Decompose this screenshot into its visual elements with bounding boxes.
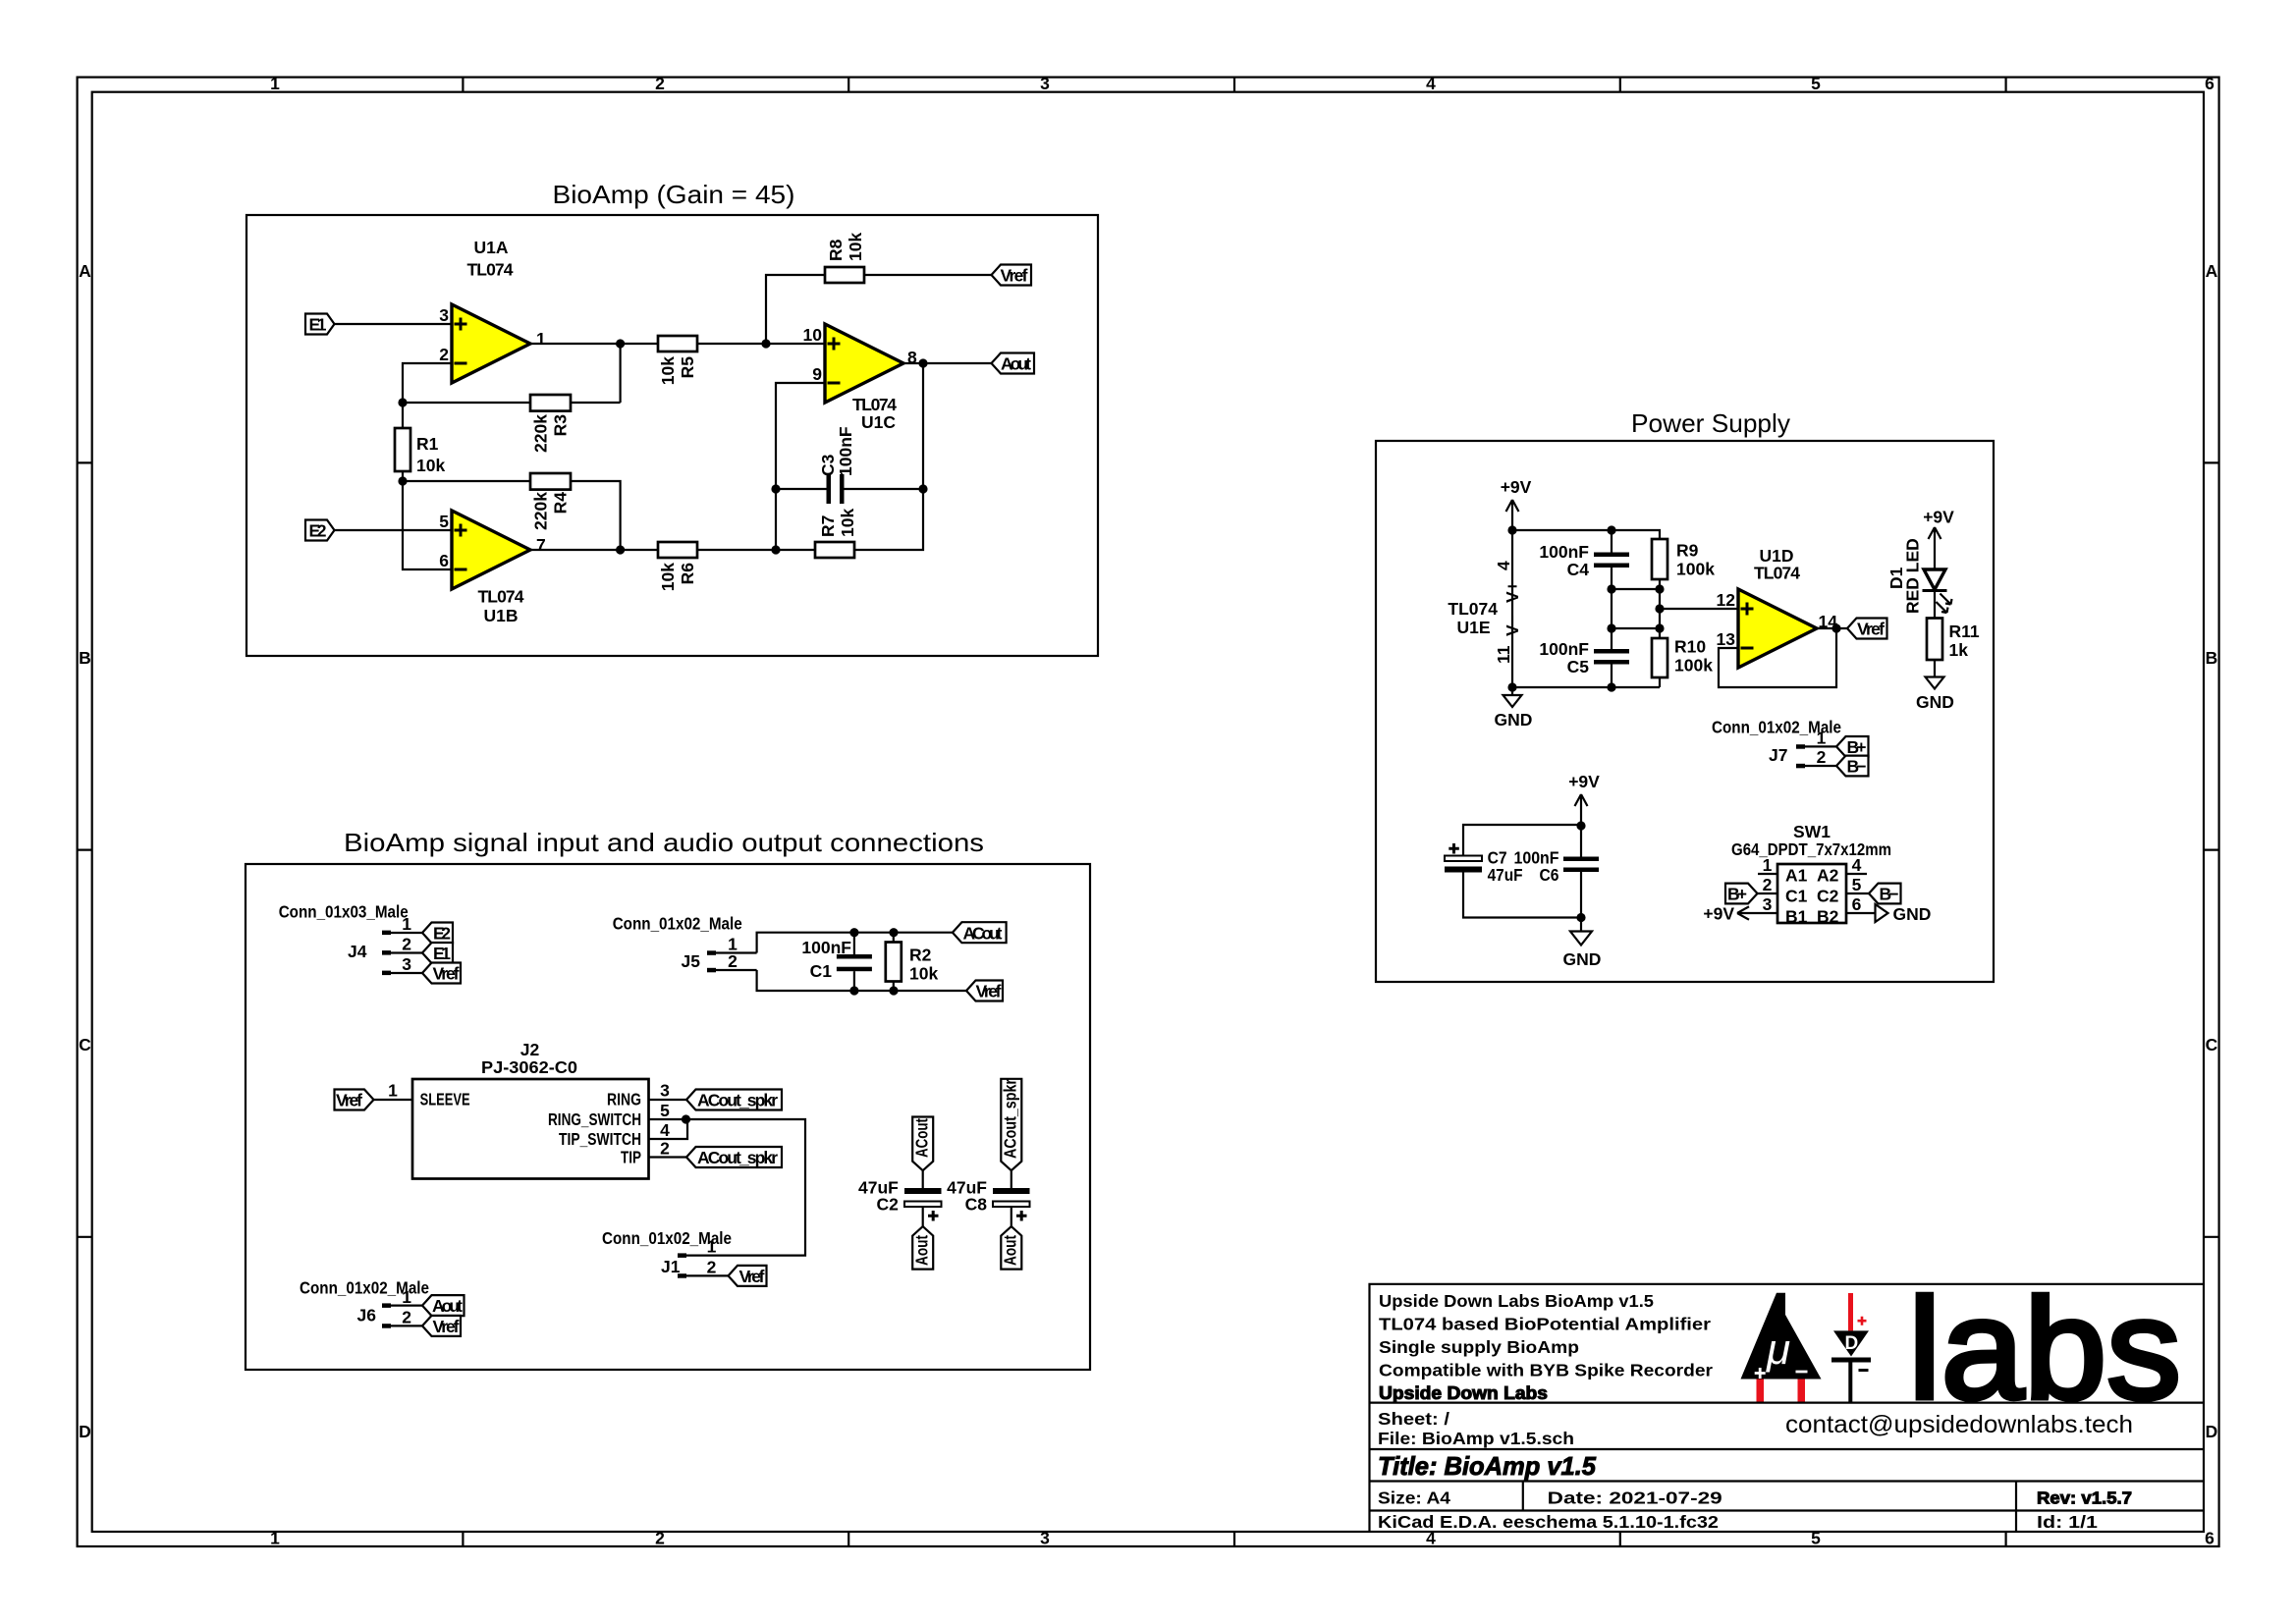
svg-text:1: 1 (402, 914, 411, 934)
svg-text:U1C: U1C (861, 412, 896, 432)
svg-text:100nF: 100nF (1539, 639, 1589, 659)
svg-text:Vref: Vref (739, 1267, 765, 1286)
svg-text:R3: R3 (551, 414, 571, 437)
svg-text:Date: 2021-07-29: Date: 2021-07-29 (1548, 1488, 1722, 1508)
svg-text:2: 2 (728, 951, 738, 971)
resistor R9 (1652, 539, 1667, 589)
SW1 pin 1 (1758, 855, 1777, 875)
resistor R7 (815, 542, 854, 558)
svg-text:47uF: 47uF (1488, 865, 1523, 885)
svg-text:10: 10 (803, 325, 823, 345)
svg-text:ACout: ACout (963, 924, 1003, 944)
svg-text:5: 5 (1811, 74, 1821, 93)
svg-text:C2: C2 (1817, 886, 1839, 905)
global label Vref (J2 sleeve) (335, 1090, 374, 1110)
svg-text:R10: R10 (1674, 637, 1706, 657)
svg-text:Aout: Aout (912, 1235, 932, 1266)
resistor R5 (658, 336, 697, 352)
J2 pin 4 wire (649, 1119, 688, 1139)
svg-text:Sheet: /: Sheet: / (1378, 1409, 1449, 1429)
wire R7 to pin8 riser (854, 363, 923, 550)
junction C3 right (918, 484, 927, 493)
wire R1 bottom stub (402, 471, 404, 481)
svg-text:GND: GND (1495, 710, 1533, 730)
resistor R11 (1927, 589, 1942, 677)
op-amp U1E power pins body (1511, 530, 1513, 687)
svg-text:3: 3 (402, 954, 411, 974)
svg-text:4: 4 (1426, 74, 1436, 93)
wire node B down to pin6 (403, 481, 452, 569)
wire R6 to R7 (697, 549, 815, 551)
svg-text:R1: R1 (416, 434, 439, 454)
logo diode symbol (1831, 1293, 1871, 1402)
junction U1E top (1507, 525, 1516, 534)
connector J6 pin 2 (382, 1308, 422, 1328)
wire J5 to bottom rail (757, 970, 967, 991)
junction C3 left (771, 484, 780, 493)
junction mid1 right (1655, 584, 1664, 593)
ground GND (C6) (1563, 918, 1602, 970)
resistor R1 (395, 428, 410, 471)
svg-text:Vref: Vref (433, 964, 460, 984)
svg-text:TL074: TL074 (1754, 564, 1800, 583)
svg-text:5: 5 (439, 512, 449, 531)
resistor R10 (1652, 628, 1667, 687)
svg-text:2: 2 (660, 1139, 670, 1159)
svg-text:R6: R6 (678, 563, 697, 585)
svg-text:Vref: Vref (1857, 620, 1885, 639)
capacitor C4 (1594, 530, 1629, 589)
svg-text:100k: 100k (1674, 656, 1713, 676)
global label Vref (J1) (729, 1266, 767, 1286)
ground GND (U1E) (1495, 687, 1533, 730)
connector J4 pin 2 (382, 935, 422, 955)
svg-text:J2: J2 (520, 1040, 540, 1059)
svg-text:TL074 based BioPotential Ampli: TL074 based BioPotential Amplifier (1379, 1315, 1711, 1334)
svg-text:10k: 10k (846, 233, 865, 261)
svg-text:C8: C8 (965, 1195, 988, 1215)
junction pin10/R8 (761, 339, 770, 348)
svg-text:3: 3 (1040, 1529, 1050, 1548)
svg-text:Id: 1/1: Id: 1/1 (2037, 1512, 2098, 1532)
connector J6 pin 1 (382, 1287, 422, 1308)
svg-text:B: B (79, 648, 91, 668)
wire node A to R3 (403, 402, 530, 404)
global label Vref (J5) (966, 981, 1003, 1001)
wire R4 right (571, 481, 621, 550)
svg-text:B−: B− (1847, 757, 1867, 777)
svg-text:File: BioAmp v1.5.sch: File: BioAmp v1.5.sch (1378, 1429, 1574, 1448)
svg-text:9: 9 (812, 364, 822, 384)
svg-text:1: 1 (388, 1081, 398, 1101)
svg-text:Conn_01x02_Male: Conn_01x02_Male (613, 913, 742, 933)
svg-text:Vref: Vref (976, 982, 1002, 1001)
capacitor C8 polarized (993, 1188, 1030, 1227)
svg-text:U1A: U1A (473, 238, 508, 257)
border column ticks bottom (463, 1532, 2005, 1546)
global label ACout (above C2) vertical (912, 1117, 934, 1171)
global label ACout_spkr (J2 ring) (686, 1090, 782, 1110)
svg-text:J7: J7 (1769, 745, 1787, 765)
wire R8 riser (766, 275, 825, 344)
border row ticks left (78, 462, 92, 1236)
border row labels right (2206, 261, 2218, 1441)
border column labels bottom (270, 1529, 2214, 1548)
svg-text:RING: RING (607, 1090, 641, 1109)
wire R5 to U1C pin10 (697, 343, 825, 345)
junction R2 bottom (889, 986, 898, 995)
svg-text:V−: V− (1503, 615, 1522, 636)
capacitor C7 polarized (1445, 843, 1482, 873)
wire J2 pin5 to J1 pin1 (686, 1119, 806, 1256)
wire C3 left (776, 488, 827, 490)
svg-text:C: C (2206, 1035, 2218, 1055)
junction C4 top (1607, 525, 1615, 534)
svg-text:Conn_01x03_Male: Conn_01x03_Male (279, 902, 409, 922)
global label ACout_spkr (above C8) vertical (1001, 1079, 1022, 1170)
svg-text:B+: B+ (1847, 737, 1867, 757)
SW1 pin 6 with GND arrow (1846, 894, 1931, 924)
wire R3 right (571, 402, 621, 404)
global label ACout (J5) (953, 922, 1007, 943)
svg-text:R9: R9 (1676, 541, 1699, 561)
wire ACout to C2 (922, 1170, 924, 1188)
wire pin12 (1660, 608, 1738, 610)
junction C5 bottom (1607, 682, 1615, 691)
svg-text:R11: R11 (1949, 622, 1980, 641)
wire U1D feedback (1719, 628, 1836, 687)
wire R8 to Vref (864, 274, 992, 276)
junction pin1/R3 (616, 339, 625, 348)
svg-text:Vref: Vref (433, 1317, 460, 1336)
connector J1 pin 2 (678, 1257, 729, 1277)
svg-text:ACout: ACout (912, 1118, 932, 1158)
resistor R2 (886, 933, 902, 991)
svg-text:R7: R7 (818, 515, 838, 537)
svg-text:1: 1 (1763, 855, 1773, 875)
svg-text:1: 1 (707, 1237, 717, 1257)
svg-text:B−: B− (1880, 885, 1899, 904)
svg-text:10k: 10k (658, 563, 678, 591)
J2 pin 2 wire (649, 1156, 687, 1158)
global label Aout (below C8) vertical (1001, 1226, 1022, 1270)
svg-text:A2: A2 (1817, 866, 1839, 886)
op-amp U1A (452, 304, 530, 383)
svg-text:RING_SWITCH: RING_SWITCH (548, 1109, 641, 1129)
svg-text:5: 5 (1811, 1529, 1821, 1548)
connector J5 pin 1 (707, 935, 757, 955)
junction pin8 (918, 358, 927, 367)
junction mid1 left (1607, 584, 1615, 593)
svg-text:100nF: 100nF (1539, 542, 1589, 562)
svg-text:2: 2 (707, 1257, 717, 1276)
svg-text:220k: 220k (531, 414, 551, 453)
svg-text:E1: E1 (433, 944, 451, 963)
wire U1A pin1 to R5 (530, 343, 658, 345)
svg-text:SW1: SW1 (1793, 822, 1831, 841)
svg-text:D: D (79, 1422, 91, 1441)
SW1 pin 2 (1757, 875, 1778, 894)
junction C6 bottom (1576, 913, 1585, 922)
svg-text:3: 3 (660, 1081, 670, 1101)
svg-text:1: 1 (536, 329, 546, 349)
power symbol +9V (U1E) (1501, 477, 1532, 530)
svg-text:5: 5 (660, 1101, 670, 1120)
svg-text:+9V: +9V (1501, 477, 1532, 497)
global label Vref (U1D) (1847, 619, 1887, 639)
svg-text:Upside Down Labs: Upside Down Labs (1379, 1382, 1548, 1403)
wire E2 to U1B pin5 (335, 529, 453, 531)
resistor R3 (530, 395, 571, 411)
svg-text:10k: 10k (838, 509, 857, 537)
svg-text:10k: 10k (416, 456, 445, 475)
svg-text:6: 6 (2205, 74, 2214, 93)
J2 pin 5 wire (649, 1118, 686, 1120)
SW1 inside labels A1 A2 C1 C2 B1 B2 (1785, 866, 1839, 927)
svg-text:R4: R4 (551, 492, 571, 514)
svg-text:TIP_SWITCH: TIP_SWITCH (559, 1129, 641, 1149)
svg-text:A: A (2206, 261, 2218, 281)
global label B+ (J7) (1836, 736, 1869, 757)
svg-text:TL074: TL074 (1448, 599, 1498, 619)
resistor R8 (825, 267, 864, 283)
wire U1D output (1817, 627, 1847, 629)
connector J1 pin 1 (678, 1237, 717, 1258)
svg-text:100nF: 100nF (801, 938, 851, 957)
capacitor C2 polarized (904, 1188, 942, 1227)
wire E1 to U1A pin3 (335, 323, 453, 325)
junction R6/pin9 riser (771, 545, 780, 554)
wire ACout_spkr to C8 (1011, 1170, 1012, 1188)
wire U1B pin7 to R6 (530, 549, 658, 551)
svg-text:1: 1 (270, 1529, 280, 1548)
svg-text:13: 13 (1717, 629, 1736, 649)
svg-text:7: 7 (536, 535, 546, 555)
svg-text:4: 4 (1852, 855, 1862, 875)
svg-text:SLEEVE: SLEEVE (420, 1090, 470, 1109)
wire mid verticals (1612, 589, 1660, 628)
global label E1 (305, 314, 335, 335)
global label E2 (J4) (422, 923, 453, 944)
svg-text:PJ-3062-C0: PJ-3062-C0 (481, 1057, 577, 1077)
svg-text:J5: J5 (682, 951, 701, 971)
global label Vref (J6) (422, 1316, 461, 1336)
junction U1E bottom (1507, 682, 1516, 691)
border row labels left (79, 261, 91, 1441)
ground GND (R11) (1916, 677, 1954, 713)
svg-text:TL074: TL074 (467, 260, 514, 280)
svg-text:+9V: +9V (1923, 508, 1954, 527)
svg-text:C3: C3 (818, 454, 838, 476)
svg-text:J4: J4 (348, 942, 367, 961)
svg-text:Power Supply: Power Supply (1631, 408, 1790, 438)
svg-text:2: 2 (1817, 747, 1827, 767)
logo op-amp symbol (1741, 1293, 1822, 1402)
svg-text:C4: C4 (1567, 560, 1590, 579)
svg-text:2: 2 (439, 345, 449, 364)
svg-text:1: 1 (270, 74, 280, 93)
svg-text:C5: C5 (1567, 657, 1590, 676)
wire J5 to top rail (757, 933, 953, 953)
global label Vref (R8) (992, 265, 1032, 286)
junction J2 pin5 (682, 1114, 690, 1123)
svg-text:2: 2 (655, 74, 665, 93)
resistor R4 (530, 473, 571, 490)
svg-text:6: 6 (2205, 1529, 2214, 1548)
svg-text:2: 2 (1763, 875, 1773, 894)
LED D1 (1923, 569, 1952, 613)
border row ticks right (2204, 462, 2219, 1236)
svg-text:1k: 1k (1949, 640, 1969, 660)
svg-text:U1E: U1E (1456, 618, 1490, 637)
svg-text:B+: B+ (1727, 885, 1747, 904)
junction pin7/R4 (616, 545, 625, 554)
svg-text:2: 2 (402, 1308, 411, 1327)
global label Vref (J4) (422, 963, 461, 984)
connector J7 pin 1 (1796, 728, 1836, 748)
svg-text:Aout: Aout (1001, 354, 1031, 374)
svg-text:U1B: U1B (483, 606, 518, 625)
global label E2 (305, 520, 335, 541)
resistor R6 (658, 542, 697, 558)
svg-text:A1: A1 (1785, 866, 1808, 886)
svg-text:3: 3 (439, 305, 449, 325)
svg-text:12: 12 (1717, 590, 1736, 610)
svg-text:Single supply BioAmp: Single supply BioAmp (1379, 1337, 1579, 1357)
svg-text:100nF: 100nF (836, 426, 855, 476)
title block frame lines (1370, 1284, 2205, 1532)
svg-text:ACout_spkr: ACout_spkr (697, 1091, 778, 1110)
svg-text:TL074: TL074 (478, 587, 524, 607)
J2 pin 3 wire (649, 1099, 687, 1101)
SW1 pin 4 (1846, 855, 1867, 875)
svg-text:BioAmp signal input and audio: BioAmp signal input and audio output con… (344, 828, 984, 857)
svg-text:Compatible with BYB Spike Reco: Compatible with BYB Spike Recorder (1379, 1361, 1713, 1380)
junction C6 top (1576, 821, 1585, 830)
svg-text:R5: R5 (678, 356, 697, 379)
global label ACout_spkr (J2 tip) (686, 1147, 782, 1167)
section box BioAmp (246, 215, 1098, 656)
capacitor C3 (827, 474, 845, 504)
global label B- (J7) (1836, 756, 1869, 777)
global label B- (SW1) (1869, 884, 1901, 904)
svg-text:V+: V+ (1503, 581, 1522, 603)
connector J2 body (412, 1079, 649, 1179)
svg-text:R8: R8 (826, 239, 846, 261)
svg-text:labs: labs (1908, 1269, 2181, 1429)
section box power supply (1376, 441, 1994, 982)
wire C7 bottom (1463, 873, 1581, 918)
svg-text:Aout: Aout (1001, 1235, 1020, 1266)
connector J7 pin 2 (1796, 747, 1836, 768)
border column ticks top (463, 78, 2005, 92)
junction R2 top (889, 928, 898, 937)
svg-text:6: 6 (1852, 894, 1862, 914)
connector J5 pin 2 (707, 951, 757, 972)
global label Aout (992, 353, 1035, 374)
svg-text:J6: J6 (357, 1306, 377, 1325)
svg-text:D: D (1845, 1333, 1859, 1354)
op-amp U1C (825, 324, 903, 403)
svg-text:TL074: TL074 (852, 395, 897, 414)
svg-text:Vref: Vref (1001, 266, 1028, 286)
svg-text:GND: GND (1893, 904, 1932, 924)
wire R3 feedback riser (619, 344, 621, 403)
junction node B (398, 476, 407, 485)
svg-text:Rev: v1.5.7: Rev: v1.5.7 (2037, 1488, 2132, 1508)
SW1 pin 3 with +9V arrow (1703, 894, 1777, 924)
wire Vref to J2 pin1 (374, 1099, 413, 1101)
junction pin14 (1831, 623, 1840, 632)
capacitor C1 (837, 933, 872, 991)
svg-text:TIP: TIP (621, 1148, 641, 1167)
wire U1C pin8 to Aout (903, 362, 992, 364)
svg-text:ACout_spkr: ACout_spkr (697, 1148, 778, 1167)
wire top rail to R9 (1512, 530, 1660, 539)
svg-text:3: 3 (1763, 894, 1773, 914)
junction C1 top (849, 928, 858, 937)
svg-text:+9V: +9V (1568, 772, 1600, 791)
junction mid2 right (1655, 623, 1664, 632)
connector J4 pin 1 (382, 914, 422, 935)
capacitor C5 (1594, 628, 1629, 687)
svg-text:C6: C6 (1540, 865, 1559, 885)
svg-text:220k: 220k (531, 492, 551, 530)
svg-text:+9V: +9V (1703, 904, 1734, 924)
svg-text:Vref: Vref (336, 1091, 362, 1110)
svg-text:Size: A4: Size: A4 (1378, 1488, 1450, 1508)
svg-text:10k: 10k (658, 356, 678, 385)
svg-text:Upside Down Labs BioAmp v1.5: Upside Down Labs BioAmp v1.5 (1379, 1291, 1654, 1311)
connector J4 pin 3 (382, 954, 422, 975)
power symbol +9V (D1) (1923, 508, 1954, 568)
capacitor C6 (1563, 825, 1599, 918)
svg-text:Aout: Aout (432, 1296, 463, 1316)
svg-text:GND: GND (1916, 692, 1954, 712)
svg-text:C1: C1 (810, 961, 833, 981)
junction pin12 tap (1655, 604, 1664, 613)
global label E1 (J4) (422, 943, 453, 963)
svg-text:E2: E2 (309, 521, 327, 541)
junction node A (398, 398, 407, 406)
svg-text:μ: μ (1766, 1325, 1790, 1374)
svg-text:6: 6 (439, 551, 449, 570)
section box signal io (246, 864, 1090, 1370)
wire mid rail 1 (1612, 588, 1660, 590)
switch SW1 body (1777, 864, 1846, 923)
SW1 pin 5 (1846, 875, 1870, 894)
svg-text:11: 11 (1494, 645, 1513, 664)
svg-text:3: 3 (1040, 74, 1050, 93)
svg-text:2: 2 (402, 935, 411, 954)
svg-text:G64_DPDT_7x7x12mm: G64_DPDT_7x7x12mm (1731, 839, 1891, 859)
svg-text:100k: 100k (1676, 560, 1715, 579)
svg-text:1: 1 (1817, 728, 1827, 747)
wire pin9 riser (776, 383, 825, 550)
svg-text:D: D (2206, 1422, 2218, 1441)
svg-text:E1: E1 (309, 315, 327, 335)
svg-text:J1: J1 (661, 1257, 681, 1276)
svg-text:ACout_spkr: ACout_spkr (1001, 1079, 1020, 1159)
svg-text:5: 5 (1852, 875, 1862, 894)
svg-text:10k: 10k (909, 964, 938, 984)
svg-text:B: B (2206, 648, 2218, 668)
wire node B to R4 (403, 480, 530, 482)
svg-text:KiCad E.D.A. eeschema 5.1.10-: KiCad E.D.A. eeschema 5.1.10-1.fc32 (1378, 1512, 1719, 1532)
junction C1 bottom (849, 986, 858, 995)
op-amp U1D (1738, 589, 1817, 668)
global label Aout (J6) (422, 1295, 465, 1316)
